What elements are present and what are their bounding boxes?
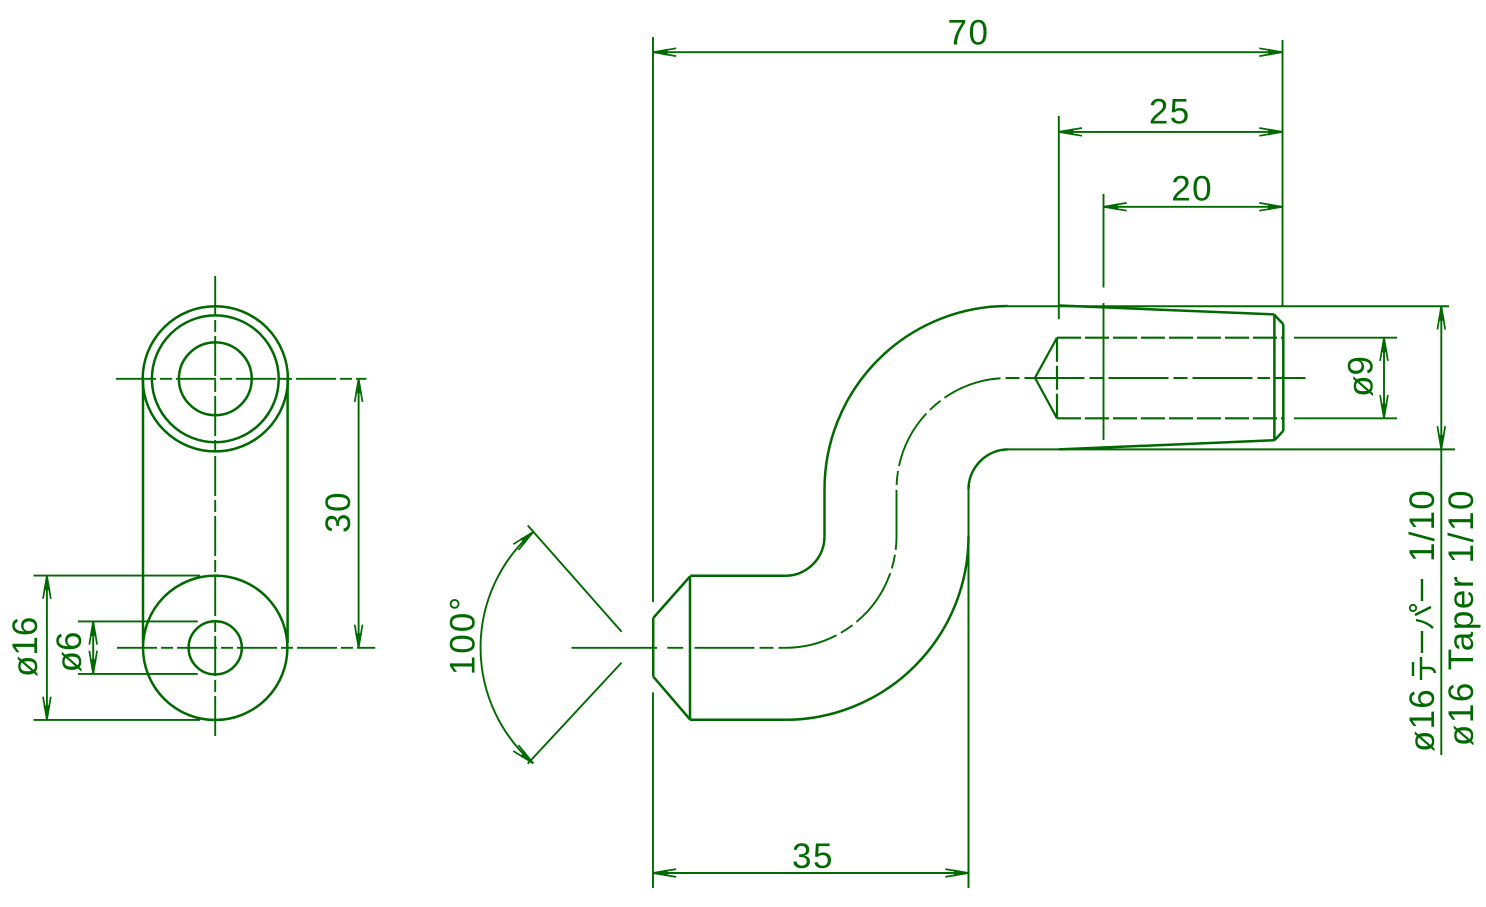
svg-text:ø16: ø16	[1403, 688, 1442, 752]
dim 35 line	[653, 872, 969, 874]
dim25 left arrow	[1059, 129, 1074, 136]
dia6 bottom extension line	[78, 673, 198, 675]
chamfer start line	[1273, 314, 1276, 440]
25 extension line	[1058, 116, 1060, 319]
lower bend outer arc	[785, 536, 968, 719]
upper cylinder top edge + dia16 ext	[1008, 305, 1449, 307]
angle arc lower arrow	[520, 751, 533, 763]
upper cylinder bottom edge + dia16 ext	[1008, 448, 1455, 450]
dim70 right arrow	[1268, 49, 1283, 56]
svg-text:30: 30	[319, 491, 358, 533]
dim20 right arrow	[1268, 203, 1283, 210]
dim35 right arrow	[954, 870, 969, 877]
dim 25 line	[1059, 131, 1283, 133]
taper bottom edge	[1059, 440, 1275, 449]
angle upper leg	[528, 525, 622, 631]
dim35 left arrow	[653, 870, 668, 877]
right end face	[1282, 324, 1285, 431]
axis centerline tip dash	[667, 647, 683, 649]
neck right edge + 35 extension	[968, 489, 970, 888]
svg-text:ø9: ø9	[1342, 356, 1381, 397]
dim 30 line	[358, 379, 360, 648]
neck left edge	[823, 489, 826, 536]
svg-text:35: 35	[792, 837, 834, 876]
top circle inner tip dia	[179, 342, 252, 415]
dim25 right arrow	[1268, 129, 1283, 136]
dia9 bottom arrow	[1381, 404, 1388, 419]
upper bend outer arc	[825, 306, 1008, 489]
dia6 dimension line	[92, 621, 94, 674]
lower bend inner arc	[785, 536, 824, 575]
left extension line lower part	[652, 692, 654, 888]
dia16 taper top arrow	[1438, 306, 1445, 321]
left view bottom circle horizontal centerline	[117, 647, 375, 649]
left view top circle horizontal centerline	[116, 378, 367, 380]
dia9 bottom extension	[1294, 417, 1397, 419]
angle lower leg	[528, 663, 622, 764]
left view vertical centerline	[214, 276, 216, 739]
dia16 taper label japanese	[1403, 489, 1442, 752]
svg-text:20: 20	[1171, 170, 1213, 209]
left extension line upper part	[652, 37, 654, 602]
axis centerline end segment	[1275, 377, 1306, 379]
dim30 top arrow	[355, 379, 362, 394]
dia6 bottom arrow	[90, 659, 97, 674]
drill cone lower edge	[1035, 378, 1057, 419]
dia16 bottom arrow	[44, 705, 51, 720]
hole cone base line	[1056, 338, 1058, 419]
angle dimension arc	[481, 532, 534, 764]
tip flat face	[652, 618, 655, 677]
svg-text:ø6: ø6	[50, 632, 89, 673]
top circle outer dia 16	[143, 306, 288, 451]
tip bottom chamfer	[653, 677, 690, 720]
svg-text:ø16: ø16	[6, 617, 45, 677]
hole bottom line dia9	[1057, 417, 1283, 419]
20 extension line upper	[1103, 194, 1105, 288]
dia16 top arrow	[44, 576, 51, 591]
cone base shoulder line	[689, 576, 692, 720]
angle arc upper arrow	[520, 532, 533, 544]
dia16 taper dimension line	[1440, 306, 1442, 755]
tip top chamfer	[653, 576, 690, 618]
svg-text:70: 70	[948, 14, 990, 53]
right end top chamfer	[1274, 314, 1283, 324]
dia16 taper bottom arrow	[1438, 435, 1445, 450]
dia6 top arrow	[90, 621, 97, 636]
dim70 left arrow	[653, 49, 668, 56]
dia6 top extension line	[78, 620, 198, 622]
dia16 top extension line	[34, 575, 201, 577]
top circle taper end dia	[152, 315, 279, 442]
dim30 bottom arrow	[355, 633, 362, 648]
dia9 dimension line	[1383, 338, 1385, 419]
dia16 bottom extension line	[34, 719, 201, 721]
right tangent side line	[286, 379, 289, 643]
lower cylinder top edge	[690, 575, 785, 578]
dim20 left arrow	[1104, 203, 1119, 210]
hole top line dia9	[1057, 337, 1283, 339]
svg-text:100°: 100°	[444, 595, 483, 675]
dia9 top arrow	[1381, 338, 1388, 353]
svg-text:1/10: 1/10	[1403, 489, 1442, 562]
right extension line 70/25/20	[1282, 40, 1284, 306]
upper bend inner arc	[969, 449, 1008, 489]
lower cylinder bottom edge	[690, 719, 785, 722]
axis centerline lead segment	[572, 647, 658, 649]
dia16 dimension line	[46, 576, 48, 720]
bottom circle outer dia 16	[143, 576, 287, 720]
part axis centerline	[695, 378, 1271, 648]
20 extension line through part	[1103, 303, 1105, 440]
dim 70 line	[653, 51, 1283, 53]
taper top edge	[1059, 306, 1274, 315]
right end bottom chamfer	[1275, 431, 1284, 440]
dia9 top extension	[1294, 337, 1397, 339]
svg-text:25: 25	[1149, 92, 1191, 131]
dim 20 line	[1104, 206, 1283, 208]
svg-text:ø16 Taper 1/10: ø16 Taper 1/10	[1442, 489, 1481, 746]
bottom circle hole dia 6	[189, 621, 242, 674]
drill cone upper edge	[1035, 338, 1057, 378]
left tangent side line	[142, 379, 145, 643]
